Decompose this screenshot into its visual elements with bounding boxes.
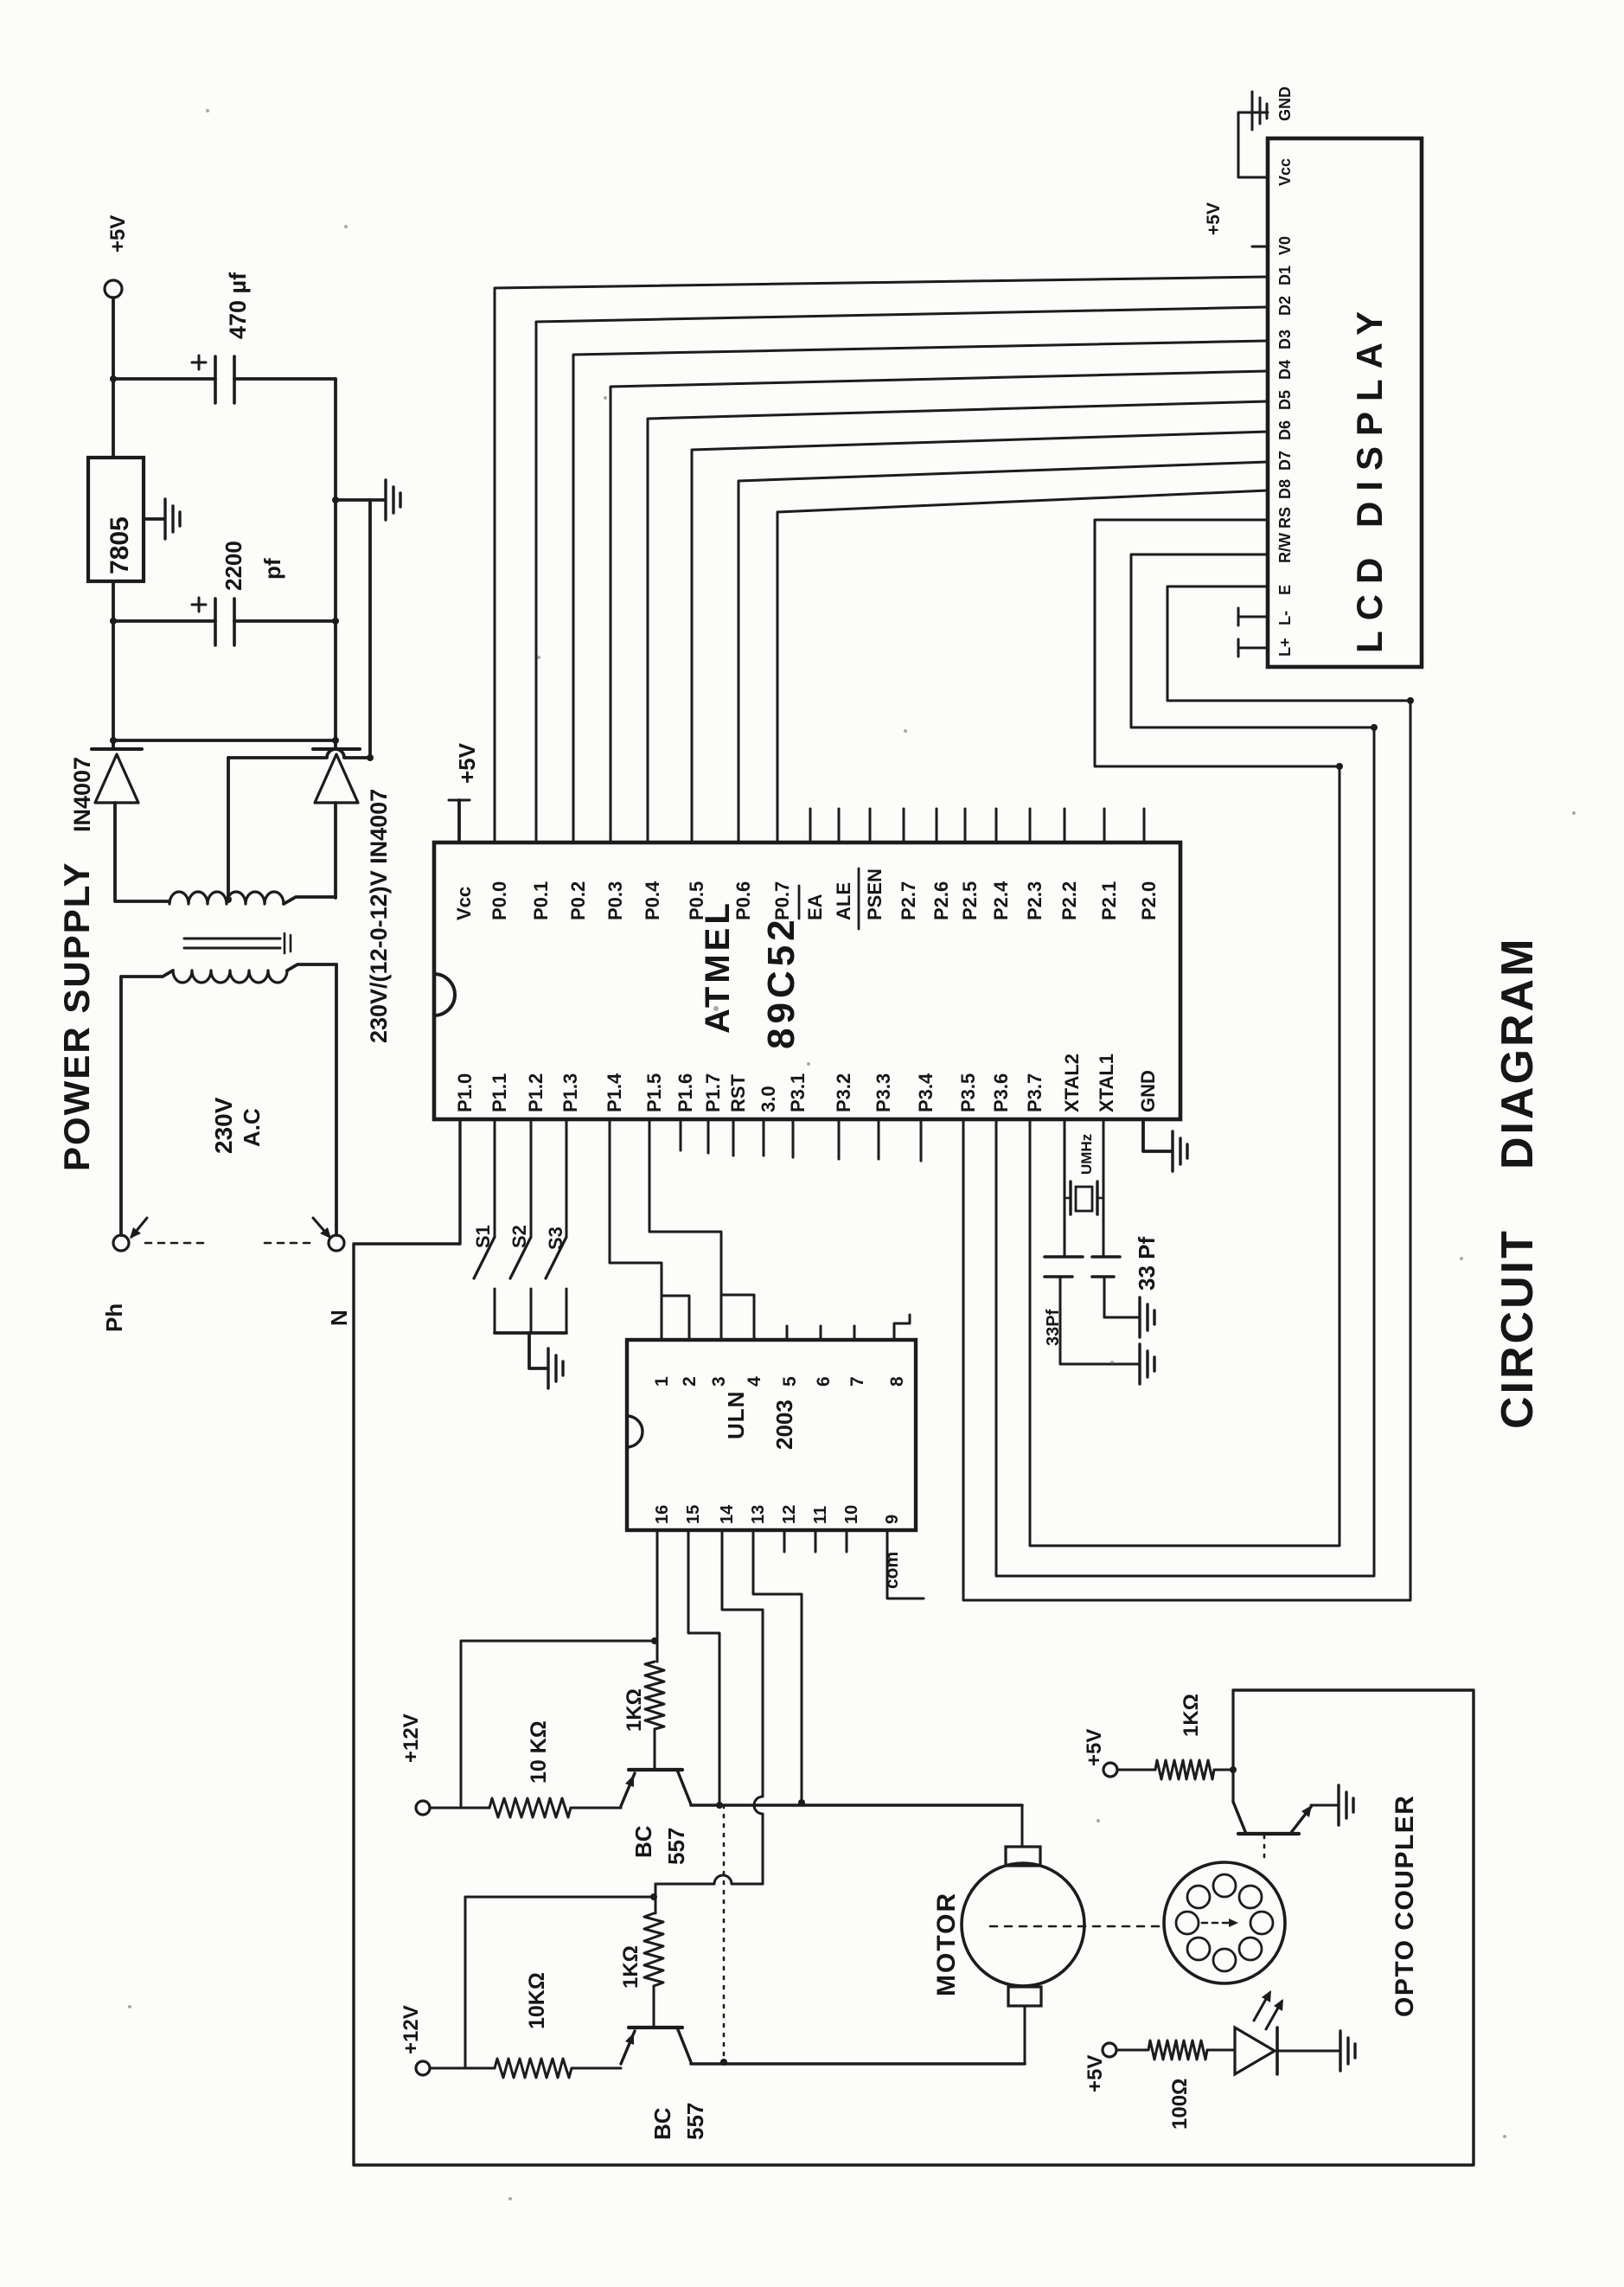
svg-text:GND: GND: [1137, 1070, 1159, 1112]
svg-text:P2.5: P2.5: [959, 881, 981, 920]
svg-text:2003: 2003: [771, 1400, 797, 1450]
svg-text:BC: BC: [649, 2107, 675, 2140]
svg-text:+12V: +12V: [400, 2005, 423, 2054]
svg-text:6: 6: [814, 1376, 834, 1387]
svg-text:P0.4: P0.4: [642, 881, 663, 920]
svg-text:7: 7: [847, 1376, 867, 1387]
svg-text:E: E: [1276, 585, 1294, 595]
svg-text:13: 13: [749, 1505, 768, 1524]
svg-text:+5V: +5V: [1204, 202, 1224, 235]
svg-text:16: 16: [653, 1505, 672, 1524]
svg-text:P0.3: P0.3: [604, 881, 626, 920]
svg-text:100Ω: 100Ω: [1168, 2079, 1192, 2130]
svg-text:PSEN: PSEN: [864, 868, 886, 920]
svg-text:ULN: ULN: [723, 1391, 749, 1439]
svg-text:557: 557: [663, 1828, 689, 1865]
svg-text:+5V: +5V: [454, 742, 480, 784]
svg-text:Vcc: Vcc: [1276, 158, 1294, 186]
svg-text:GND: GND: [1276, 86, 1294, 121]
svg-text:P0.1: P0.1: [530, 881, 552, 920]
svg-text:A.C: A.C: [239, 1108, 265, 1147]
svg-text:P1.2: P1.2: [525, 1073, 547, 1112]
svg-text:XTAL1: XTAL1: [1096, 1054, 1117, 1112]
svg-text:RST: RST: [727, 1073, 749, 1112]
svg-text:D3: D3: [1276, 330, 1294, 349]
svg-text:pf: pf: [259, 558, 285, 580]
svg-text:230V/(12-0-12)V IN4007: 230V/(12-0-12)V IN4007: [366, 789, 392, 1043]
svg-text:12: 12: [780, 1505, 799, 1524]
svg-text:4: 4: [745, 1376, 764, 1387]
svg-text:15: 15: [684, 1505, 703, 1524]
svg-text:470 µf: 470 µf: [225, 272, 251, 339]
svg-text:P0.5: P0.5: [686, 881, 707, 920]
svg-text:89C52: 89C52: [760, 915, 802, 1049]
svg-text:P3.7: P3.7: [1024, 1073, 1045, 1112]
svg-text:P3.6: P3.6: [990, 1073, 1012, 1112]
svg-text:D5: D5: [1276, 390, 1294, 410]
svg-text:P3.3: P3.3: [873, 1073, 894, 1112]
svg-text:MOTOR: MOTOR: [932, 1892, 961, 1996]
svg-text:P2.0: P2.0: [1138, 881, 1160, 920]
svg-text:+5V: +5V: [1084, 2055, 1107, 2092]
svg-text:1: 1: [652, 1376, 672, 1387]
svg-text:D2: D2: [1276, 296, 1294, 316]
svg-text:L+: L+: [1276, 637, 1294, 657]
svg-text:Vcc: Vcc: [453, 887, 475, 920]
svg-text:D7: D7: [1276, 451, 1294, 471]
svg-text:557: 557: [682, 2103, 708, 2140]
svg-text:10: 10: [842, 1505, 861, 1524]
svg-text:P2.2: P2.2: [1058, 881, 1080, 920]
svg-text:10 KΩ: 10 KΩ: [527, 1720, 551, 1784]
svg-text:com: com: [882, 1552, 902, 1589]
svg-text:RS: RS: [1276, 507, 1294, 529]
svg-text:14: 14: [718, 1504, 737, 1524]
svg-text:1KΩ: 1KΩ: [1180, 1694, 1203, 1737]
svg-text:1KΩ: 1KΩ: [619, 1945, 643, 1989]
svg-text:EA: EA: [804, 894, 826, 920]
svg-text:IN4007: IN4007: [69, 757, 95, 832]
svg-text:P2.3: P2.3: [1024, 881, 1045, 920]
svg-text:Ph: Ph: [101, 1304, 127, 1332]
svg-text:D1: D1: [1276, 266, 1294, 285]
svg-text:P1.4: P1.4: [604, 1073, 625, 1112]
svg-text:DISPLAY: DISPLAY: [1349, 301, 1390, 528]
svg-text:D6: D6: [1276, 420, 1294, 440]
svg-text:P0.7: P0.7: [771, 881, 793, 920]
svg-text:2: 2: [680, 1376, 700, 1387]
svg-text:XTAL2: XTAL2: [1061, 1054, 1083, 1112]
svg-text:UMHz: UMHz: [1078, 1134, 1095, 1175]
svg-text:11: 11: [811, 1506, 830, 1524]
svg-text:P1.3: P1.3: [559, 1073, 581, 1112]
svg-text:POWER SUPPLY: POWER SUPPLY: [56, 861, 97, 1171]
svg-text:P0.2: P0.2: [567, 881, 589, 920]
svg-text:R/W: R/W: [1276, 533, 1294, 563]
svg-text:L-: L-: [1276, 611, 1294, 625]
svg-text:DIAGRAM: DIAGRAM: [1493, 937, 1543, 1169]
svg-text:P0.0: P0.0: [489, 881, 510, 920]
svg-text:P1.0: P1.0: [454, 1073, 476, 1112]
svg-text:OPTO COUPLER: OPTO COUPLER: [1391, 1795, 1419, 2017]
svg-text:P3.2: P3.2: [833, 1073, 854, 1112]
svg-text:LCD: LCD: [1349, 548, 1390, 653]
svg-text:7805: 7805: [105, 516, 134, 574]
svg-text:P2.4: P2.4: [990, 881, 1012, 920]
svg-text:BC: BC: [630, 1825, 656, 1858]
svg-text:P0.6: P0.6: [732, 881, 754, 920]
svg-text:D8: D8: [1276, 479, 1294, 499]
svg-text:P2.6: P2.6: [930, 881, 952, 920]
svg-text:3: 3: [709, 1376, 729, 1387]
svg-text:+5V: +5V: [106, 215, 130, 253]
svg-text:1KΩ: 1KΩ: [623, 1688, 646, 1732]
svg-text:S2: S2: [508, 1225, 530, 1248]
svg-text:P1.7: P1.7: [702, 1073, 724, 1112]
svg-text:P1.6: P1.6: [675, 1073, 696, 1112]
svg-text:5: 5: [780, 1376, 800, 1387]
svg-text:8: 8: [887, 1376, 907, 1387]
svg-text:33 Pf: 33 Pf: [1134, 1237, 1160, 1291]
svg-text:P1.1: P1.1: [489, 1073, 510, 1112]
svg-text:10KΩ: 10KΩ: [525, 1972, 549, 2029]
svg-text:230V: 230V: [210, 1097, 237, 1154]
svg-text:ALE: ALE: [833, 882, 854, 920]
svg-text:S1: S1: [472, 1225, 494, 1248]
svg-text:9: 9: [883, 1515, 902, 1524]
svg-text:P3.5: P3.5: [957, 1073, 979, 1112]
svg-text:3.0: 3.0: [758, 1086, 779, 1112]
svg-text:P2.1: P2.1: [1098, 881, 1120, 920]
svg-text:P3.1: P3.1: [787, 1073, 809, 1112]
svg-text:S3: S3: [545, 1227, 566, 1250]
svg-text:2200: 2200: [221, 541, 246, 591]
svg-text:+5V: +5V: [1083, 1729, 1106, 1766]
svg-text:P1.5: P1.5: [643, 1073, 665, 1112]
svg-text:D4: D4: [1276, 360, 1294, 380]
svg-text:N: N: [326, 1310, 352, 1326]
svg-text:P3.4: P3.4: [915, 1073, 937, 1112]
svg-text:CIRCUIT: CIRCUIT: [1493, 1228, 1543, 1429]
svg-text:33Pf: 33Pf: [1044, 1309, 1063, 1346]
svg-text:+12V: +12V: [400, 1714, 423, 1763]
svg-text:P2.7: P2.7: [898, 881, 919, 920]
svg-text:V0: V0: [1276, 236, 1294, 255]
